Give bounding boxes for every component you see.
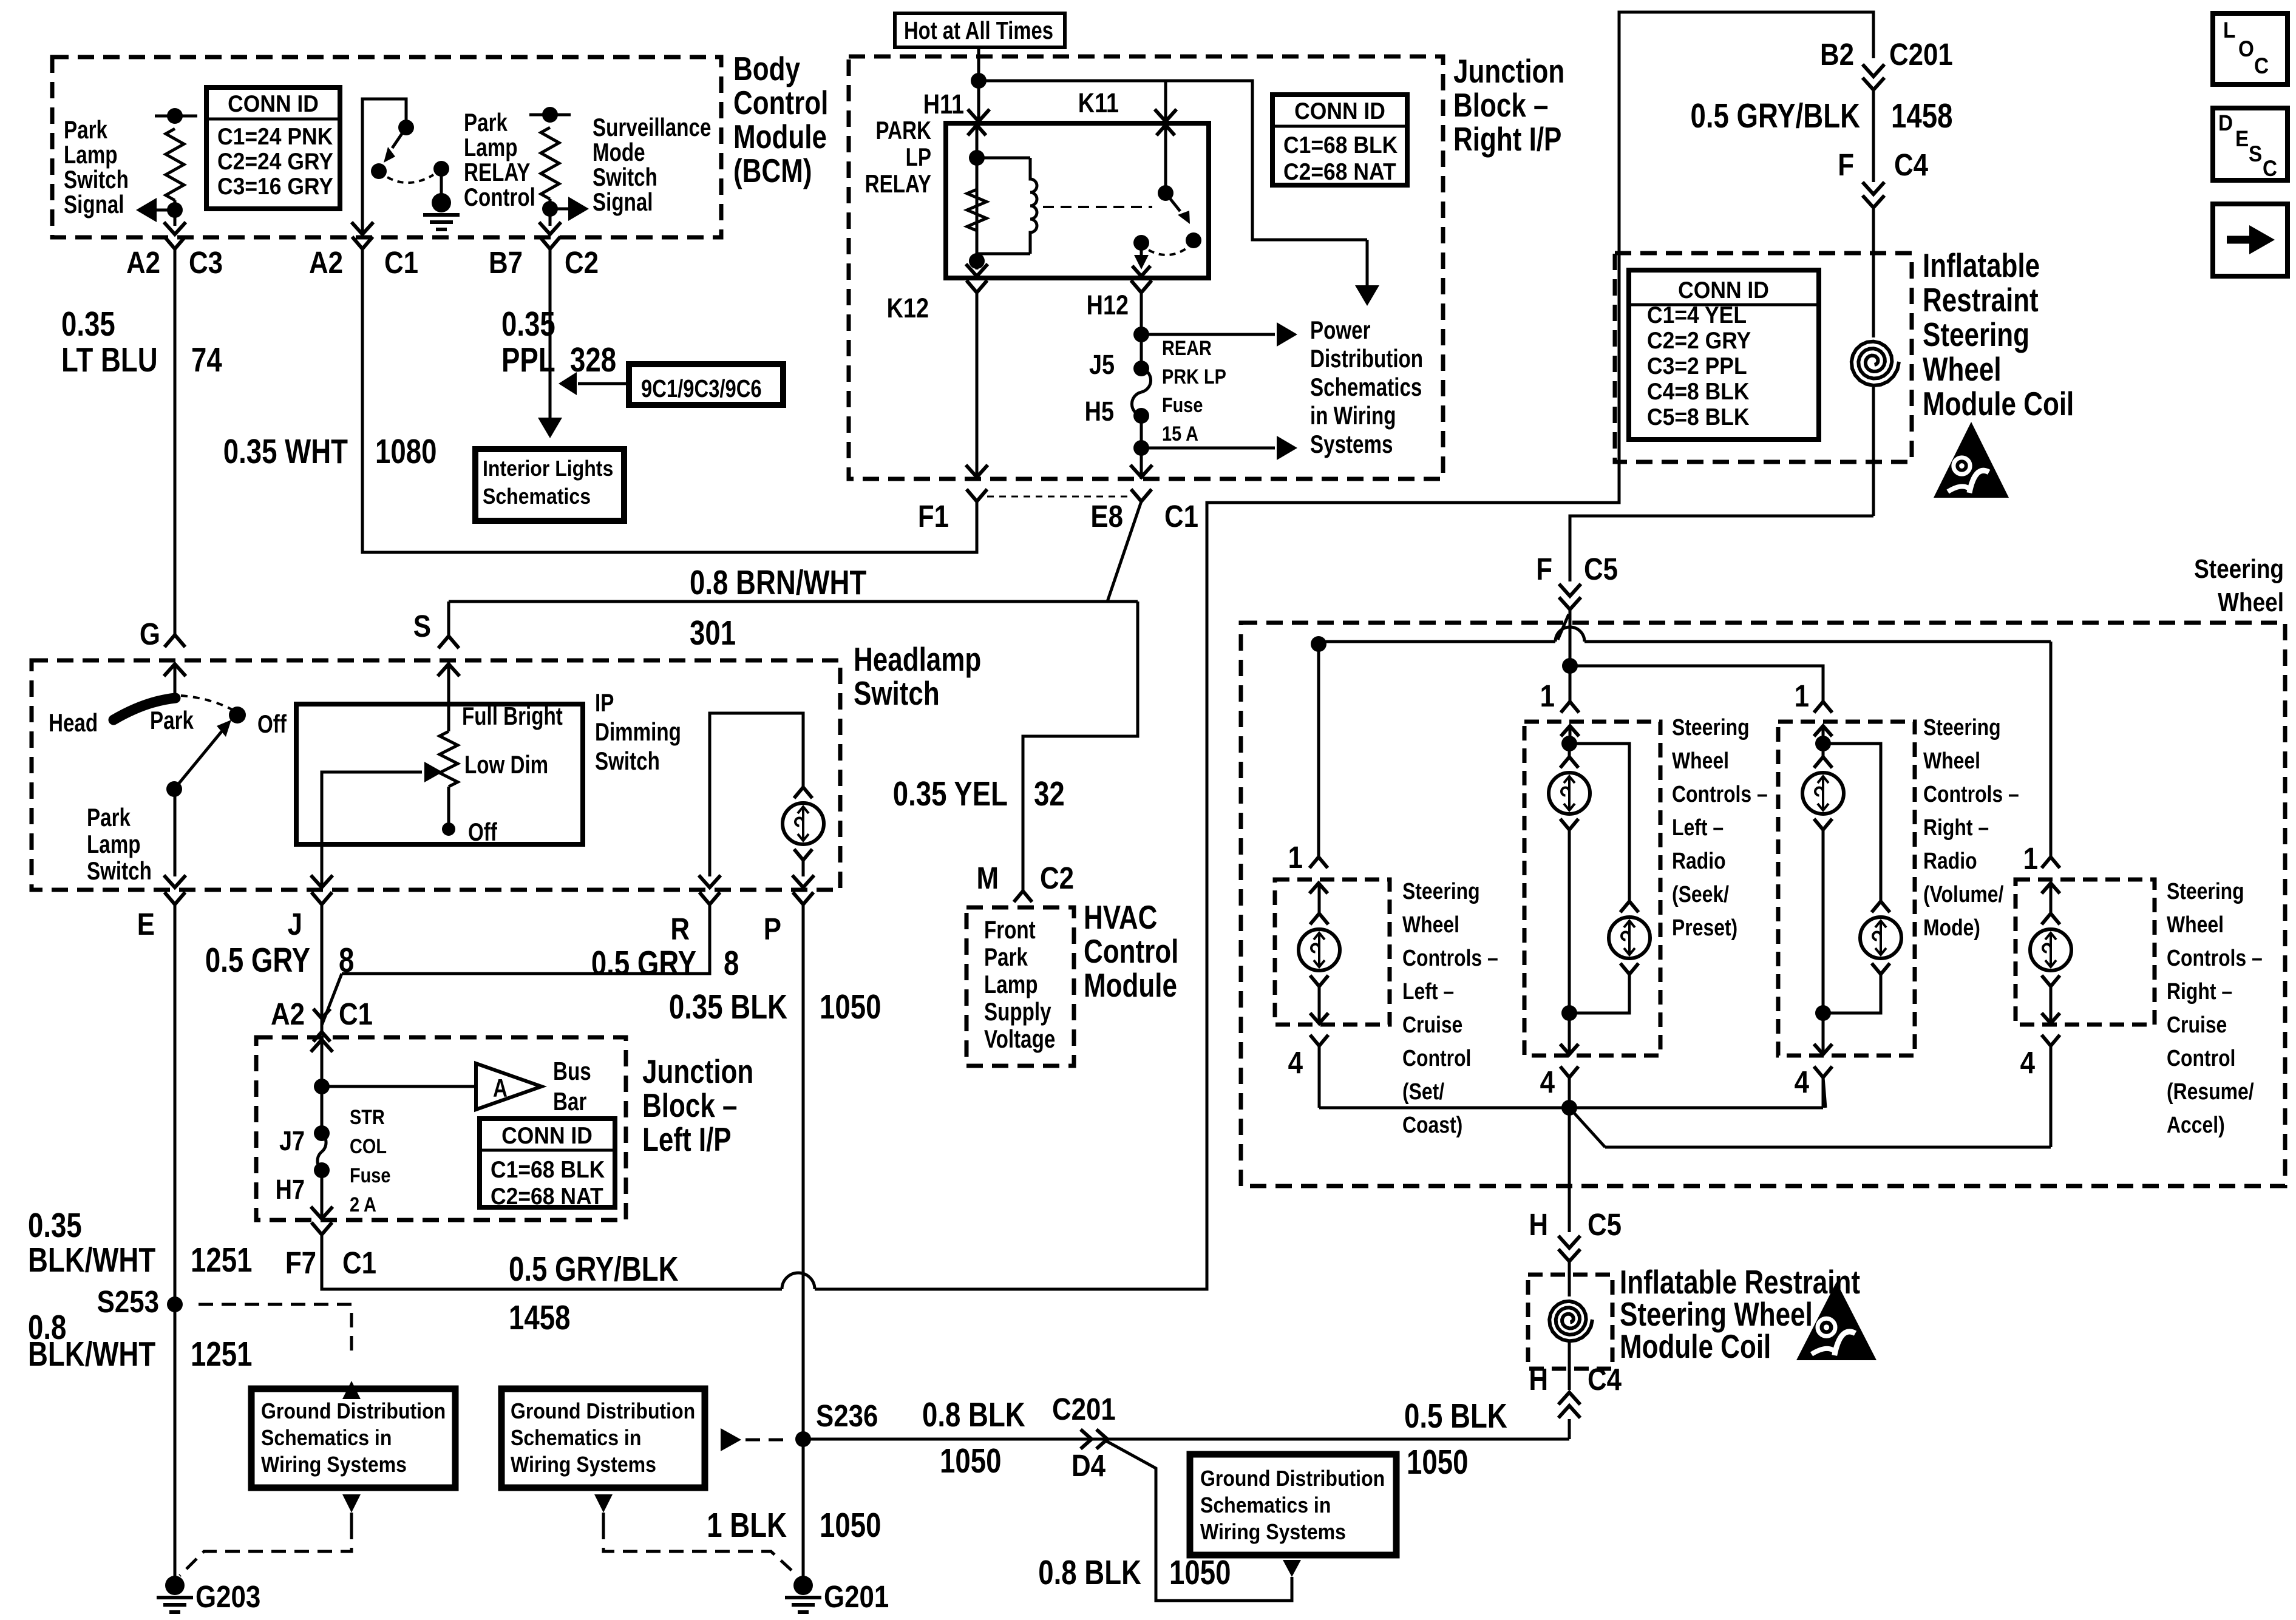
bus 1097 to right radio bbox=[1570, 666, 1823, 702]
connector fork K12 bbox=[966, 280, 987, 479]
svg-text:C1=68 BLK: C1=68 BLK bbox=[1283, 131, 1398, 158]
svg-text:PRK LP: PRK LP bbox=[1162, 365, 1226, 388]
label Headlamp Switch bbox=[854, 640, 981, 712]
connector H C5 inline bbox=[1558, 1236, 1580, 1261]
label Park Lamp RELAY Control bbox=[464, 109, 535, 212]
pin 1 left radio bbox=[1540, 679, 1579, 736]
connector C5 inline bbox=[1559, 584, 1581, 609]
connector fork B7/C2 bbox=[540, 237, 560, 262]
switch box: SWC Left Radio bbox=[1524, 722, 1660, 1056]
svg-text:C4: C4 bbox=[1588, 1363, 1622, 1397]
wire J to junction block bbox=[321, 1008, 324, 1035]
wire to H C5 bbox=[1568, 1108, 1571, 1232]
svg-text:1050: 1050 bbox=[820, 987, 881, 1026]
relay switch bbox=[1133, 123, 1201, 255]
pin 1 right radio bbox=[1795, 679, 1832, 736]
connector fork S bbox=[438, 636, 459, 648]
wire fuse to E8 bbox=[1133, 416, 1149, 479]
svg-text:Low Dim: Low Dim bbox=[464, 751, 548, 779]
svg-text:F: F bbox=[1536, 552, 1552, 587]
pin 1 left cruise bbox=[1288, 841, 1328, 893]
svg-text:9C1/9C3/9C6: 9C1/9C3/9C6 bbox=[641, 374, 762, 402]
loc box bbox=[2213, 13, 2288, 84]
svg-text:C2=68 NAT: C2=68 NAT bbox=[491, 1182, 603, 1209]
svg-text:F: F bbox=[1838, 148, 1854, 183]
label Head bbox=[49, 709, 98, 737]
svg-text:C2=24 GRY: C2=24 GRY bbox=[217, 147, 333, 174]
pin label H5 bbox=[1085, 396, 1114, 427]
pin label B2 C201 bbox=[1820, 38, 1953, 72]
label Park Lamp Switch bbox=[87, 804, 152, 886]
pin label K11 bbox=[1078, 87, 1119, 118]
svg-text:Fuse: Fuse bbox=[350, 1164, 390, 1187]
wire 0.35 WHT 1080 label bbox=[223, 432, 437, 470]
svg-text:M: M bbox=[976, 861, 999, 896]
connector fork F1 bbox=[966, 489, 987, 515]
svg-text:C201: C201 bbox=[1889, 38, 1953, 72]
fuse STR COL 2A bbox=[314, 1125, 330, 1178]
svg-text:C3=2 PPL: C3=2 PPL bbox=[1647, 352, 1747, 379]
wire K11 branch right to power dist bbox=[1166, 81, 1367, 240]
svg-text:Park: Park bbox=[87, 804, 131, 832]
label R bbox=[670, 912, 690, 947]
wire 0.35 PPL 328 label bbox=[501, 304, 616, 379]
connector arrow H11 into relay bbox=[968, 109, 990, 121]
svg-text:Park: Park bbox=[64, 116, 108, 144]
dimmer wiper arrow bbox=[322, 762, 443, 887]
label 0.8 BLK bottom bbox=[1038, 1553, 1231, 1591]
svg-text:(Volume/: (Volume/ bbox=[1923, 881, 2004, 907]
svg-text:4: 4 bbox=[1795, 1065, 1810, 1100]
svg-text:1050: 1050 bbox=[1407, 1442, 1468, 1481]
svg-text:Control: Control bbox=[2167, 1045, 2235, 1071]
svg-text:Switch: Switch bbox=[854, 674, 940, 712]
svg-text:Module: Module bbox=[1084, 966, 1177, 1004]
svg-text:Headlamp: Headlamp bbox=[854, 640, 981, 678]
label 301 bbox=[690, 613, 736, 652]
svg-text:Switch: Switch bbox=[595, 747, 660, 776]
svg-text:(Resume/: (Resume/ bbox=[2167, 1079, 2254, 1104]
resistor R-parklamp in BCM bbox=[155, 108, 197, 210]
svg-text:Hot at All Times: Hot at All Times bbox=[904, 16, 1053, 44]
pin label E8 bbox=[1090, 500, 1123, 534]
ref arrow below box3 bbox=[1283, 1560, 1301, 1577]
svg-text:CONN ID: CONN ID bbox=[501, 1122, 593, 1148]
connector H C4 inline bbox=[1558, 1392, 1580, 1439]
svg-text:Controls –: Controls – bbox=[1923, 781, 2019, 807]
pin label C1 right of E8 bbox=[1164, 500, 1198, 534]
svg-text:Interior Lights: Interior Lights bbox=[483, 456, 613, 481]
svg-text:Wheel: Wheel bbox=[2218, 587, 2284, 617]
svg-text:4: 4 bbox=[2020, 1046, 2036, 1080]
label SWC Left Radio bbox=[1672, 714, 1768, 940]
svg-text:Voltage: Voltage bbox=[984, 1025, 1055, 1054]
pin 4 right radio bbox=[1795, 1065, 1832, 1108]
off contact dot bbox=[229, 707, 246, 724]
label G bbox=[140, 617, 160, 652]
svg-text:Lamp: Lamp bbox=[64, 141, 117, 169]
svg-text:0.8 BRN/WHT: 0.8 BRN/WHT bbox=[690, 563, 866, 602]
label 1458 mid bbox=[509, 1298, 570, 1337]
wire 0.8 BRN/WHT 301 horizontal bbox=[449, 602, 1138, 891]
label J bbox=[288, 907, 302, 942]
exit SWC right radio bbox=[1814, 1013, 1832, 1054]
svg-text:Ground Distribution: Ground Distribution bbox=[511, 1399, 695, 1423]
svg-text:B7: B7 bbox=[489, 246, 523, 280]
svg-text:Inflatable: Inflatable bbox=[1923, 246, 2040, 284]
svg-text:Supply: Supply bbox=[984, 998, 1051, 1026]
park head switch dashed arc bbox=[181, 696, 236, 711]
svg-text:1050: 1050 bbox=[820, 1505, 881, 1544]
resistor R-surveillance in BCM bbox=[529, 107, 571, 209]
svg-text:Power: Power bbox=[1310, 316, 1371, 345]
conn id table Junction Right bbox=[1272, 95, 1407, 185]
label 0.8 BLK/WHT 1251 bbox=[28, 1307, 252, 1373]
connector C201 D4 inline bbox=[1081, 1429, 1107, 1449]
connector C201 inline bbox=[1863, 64, 1884, 90]
label Full Bright bbox=[462, 702, 563, 731]
connector fork H12 bbox=[1131, 280, 1152, 334]
ground G201 bbox=[785, 1576, 889, 1615]
svg-text:328: 328 bbox=[570, 340, 616, 379]
wire S236 to H C4 bbox=[803, 1438, 1569, 1441]
svg-text:Front: Front bbox=[984, 916, 1036, 944]
wire park pivot to E bbox=[164, 789, 186, 887]
pin label J7 bbox=[279, 1125, 305, 1156]
svg-text:A: A bbox=[493, 1074, 508, 1103]
svg-text:E: E bbox=[2235, 126, 2249, 151]
svg-text:0.5 GRY: 0.5 GRY bbox=[205, 940, 310, 979]
svg-text:D: D bbox=[2218, 110, 2233, 135]
svg-text:Park: Park bbox=[984, 943, 1028, 972]
wire W1 segment BCM to headlamp switch bbox=[174, 262, 177, 635]
pin 4 left cruise bbox=[1288, 1035, 1328, 1108]
label REAR PRK LP Fuse 15 A bbox=[1162, 336, 1226, 446]
svg-text:Lamp: Lamp bbox=[984, 971, 1038, 999]
label Body Control Module (BCM) bbox=[733, 50, 828, 189]
bulb SWC left radio main bbox=[1549, 726, 1590, 1013]
wire G into switch bbox=[174, 664, 177, 703]
svg-text:15 A: 15 A bbox=[1162, 422, 1198, 446]
svg-text:S253: S253 bbox=[97, 1285, 159, 1320]
svg-text:in Wiring: in Wiring bbox=[1310, 402, 1396, 430]
svg-text:0.35 WHT: 0.35 WHT bbox=[223, 432, 348, 470]
svg-text:Cruise: Cruise bbox=[2167, 1012, 2227, 1037]
svg-text:L: L bbox=[2223, 18, 2235, 42]
pin label H C4 bbox=[1529, 1363, 1622, 1397]
svg-text:Dimming: Dimming bbox=[595, 718, 681, 747]
svg-text:Steering: Steering bbox=[1402, 878, 1480, 904]
junction block F1 exit arrow bbox=[966, 465, 988, 477]
bulb SWC right radio main bbox=[1802, 726, 1844, 1013]
label 0.35 BLK 1050 bbox=[669, 987, 881, 1026]
svg-text:Wheel: Wheel bbox=[2167, 912, 2224, 937]
svg-text:Bar: Bar bbox=[553, 1088, 587, 1116]
svg-text:Right –: Right – bbox=[1923, 815, 1989, 840]
exit SWC left radio bbox=[1560, 1013, 1578, 1054]
relay control switch in BCM bbox=[362, 99, 449, 236]
wire W2 BCM C1 to F1 bbox=[362, 262, 977, 552]
conn id table Junction Left bbox=[480, 1119, 615, 1209]
svg-text:4: 4 bbox=[1288, 1046, 1303, 1080]
thin dashed connector line F1-E8 bbox=[987, 496, 1130, 498]
wire F7 exit bbox=[311, 1170, 333, 1235]
junction block E8 exit arrow bbox=[1130, 465, 1152, 477]
svg-text:1: 1 bbox=[1795, 679, 1809, 714]
svg-text:0.35 BLK: 0.35 BLK bbox=[669, 987, 787, 1026]
svg-text:C4=8 BLK: C4=8 BLK bbox=[1647, 378, 1750, 404]
label C201 D4 bbox=[1052, 1392, 1116, 1483]
svg-text:Controls –: Controls – bbox=[2167, 945, 2263, 971]
svg-text:J5: J5 bbox=[1089, 349, 1115, 380]
next arrow box bbox=[2213, 204, 2288, 276]
switch box: SWC Left Cruise bbox=[1275, 879, 1390, 1025]
svg-text:Left –: Left – bbox=[1672, 815, 1724, 840]
svg-text:0.35: 0.35 bbox=[501, 304, 555, 343]
svg-text:PPL: PPL bbox=[501, 340, 555, 379]
svg-text:Switch: Switch bbox=[64, 166, 129, 194]
module box: Inflatable Restraint coil bottom bbox=[1528, 1275, 1612, 1369]
svg-text:74: 74 bbox=[191, 340, 222, 379]
switch box: SWC Right Radio bbox=[1778, 722, 1915, 1056]
svg-text:H11: H11 bbox=[923, 89, 964, 120]
dashed ref from S253 bbox=[199, 1304, 361, 1399]
pin label A2 C1 junction left bbox=[271, 997, 373, 1032]
svg-text:Schematics in: Schematics in bbox=[1200, 1493, 1331, 1517]
svg-text:LP: LP bbox=[906, 143, 931, 172]
svg-text:Body: Body bbox=[733, 50, 800, 87]
svg-text:Steering: Steering bbox=[1923, 316, 2029, 353]
wire E8 diagonal to BRN/WHT bbox=[1107, 501, 1141, 602]
svg-text:1458: 1458 bbox=[509, 1298, 570, 1337]
svg-text:C1: C1 bbox=[342, 1246, 376, 1281]
label 1050 S236 bbox=[940, 1441, 1001, 1480]
svg-text:Left I/P: Left I/P bbox=[642, 1120, 732, 1158]
svg-text:Lamp: Lamp bbox=[464, 134, 517, 162]
svg-text:Wheel: Wheel bbox=[1402, 912, 1459, 937]
label Off bbox=[257, 710, 287, 739]
svg-text:Controls –: Controls – bbox=[1402, 945, 1498, 971]
label SWC Left Cruise bbox=[1402, 878, 1498, 1137]
svg-text:G201: G201 bbox=[824, 1580, 889, 1615]
desc box bbox=[2213, 108, 2288, 181]
svg-text:A2: A2 bbox=[309, 246, 343, 280]
wire P down to G201 bbox=[795, 904, 811, 1585]
svg-text:Steering: Steering bbox=[2167, 878, 2244, 904]
clockspring coil top bbox=[1852, 342, 1899, 516]
svg-text:C2=2 GRY: C2=2 GRY bbox=[1647, 327, 1751, 353]
switch box: SWC Right Cruise bbox=[2016, 879, 2155, 1025]
svg-text:C: C bbox=[2263, 156, 2277, 181]
connector fork A2/C1 bbox=[352, 237, 373, 262]
switch blade with arrow bbox=[166, 720, 231, 797]
label IP Dimming Switch bbox=[595, 689, 681, 776]
node: park lamp switch signal arrow bbox=[136, 198, 183, 226]
svg-text:IP: IP bbox=[595, 689, 614, 717]
ref arrow to S236 bbox=[721, 1428, 790, 1451]
svg-text:1251: 1251 bbox=[191, 1240, 252, 1279]
conn id table BCM bbox=[206, 87, 340, 209]
dashed ref to G203 bbox=[180, 1525, 352, 1576]
label S bbox=[413, 609, 431, 644]
svg-text:1251: 1251 bbox=[191, 1334, 252, 1373]
svg-text:F1: F1 bbox=[918, 500, 949, 534]
wire hot feed to relay bbox=[971, 47, 987, 119]
svg-text:J7: J7 bbox=[279, 1125, 305, 1156]
svg-text:Steering: Steering bbox=[2194, 554, 2284, 584]
svg-text:Module: Module bbox=[733, 118, 827, 155]
pin label H12 bbox=[1087, 290, 1129, 320]
wire C2 to interior lights bbox=[538, 262, 562, 438]
svg-text:Radio: Radio bbox=[1672, 848, 1726, 873]
arrow to power distribution vertical bbox=[1355, 240, 1379, 306]
svg-text:S236: S236 bbox=[816, 1399, 878, 1434]
svg-text:Surveillance: Surveillance bbox=[593, 114, 711, 142]
airbag warning triangle bottom bbox=[1796, 1282, 1877, 1360]
svg-text:(Set/: (Set/ bbox=[1402, 1079, 1444, 1104]
svg-text:Head: Head bbox=[49, 709, 98, 737]
svg-text:Wiring Systems: Wiring Systems bbox=[1200, 1520, 1346, 1544]
svg-text:Wheel: Wheel bbox=[1923, 350, 2002, 388]
module box: Junction Block Left I/P bbox=[256, 1037, 626, 1220]
wire M C2 connector bbox=[1014, 891, 1032, 902]
svg-text:G: G bbox=[140, 617, 160, 652]
svg-text:C1=68 BLK: C1=68 BLK bbox=[491, 1156, 605, 1182]
wire R to A2/C1 bbox=[322, 904, 710, 1025]
label 0.5 GRY 8 left bbox=[205, 940, 355, 979]
relay resistor bbox=[967, 189, 987, 231]
svg-text:C5=8 BLK: C5=8 BLK bbox=[1647, 403, 1750, 430]
svg-text:8: 8 bbox=[724, 943, 739, 982]
svg-text:C5: C5 bbox=[1588, 1208, 1622, 1242]
wire A2/C3 exit arrow bbox=[164, 222, 186, 234]
wire into left junction block bbox=[311, 1037, 333, 1133]
svg-text:Wiring Systems: Wiring Systems bbox=[511, 1452, 656, 1477]
svg-text:C2=68 NAT: C2=68 NAT bbox=[1283, 158, 1396, 185]
svg-text:C4: C4 bbox=[1894, 148, 1929, 183]
module box: Steering Wheel bbox=[1241, 623, 2285, 1186]
svg-text:Off: Off bbox=[468, 818, 497, 847]
svg-text:REAR: REAR bbox=[1162, 336, 1212, 360]
svg-text:K12: K12 bbox=[887, 293, 929, 324]
svg-text:Control: Control bbox=[1402, 1045, 1471, 1071]
svg-text:Park: Park bbox=[464, 109, 508, 137]
pin 4 right cruise bbox=[2020, 1035, 2060, 1147]
connector fork A2/C3 bbox=[165, 237, 185, 262]
ground distribution box 1 bbox=[251, 1389, 455, 1488]
svg-text:C1: C1 bbox=[1164, 500, 1198, 534]
pin label H7 bbox=[276, 1174, 305, 1205]
svg-text:4: 4 bbox=[1540, 1065, 1555, 1100]
label 0.5 GRY/BLK mid bbox=[509, 1249, 679, 1288]
svg-text:C5: C5 bbox=[1584, 552, 1618, 587]
arrow branch to power dist 2 bbox=[1141, 436, 1297, 460]
svg-text:Control: Control bbox=[1084, 932, 1178, 970]
svg-text:2 A: 2 A bbox=[350, 1193, 376, 1216]
svg-text:Controls –: Controls – bbox=[1672, 781, 1768, 807]
bulb SWC left radio branch bbox=[1561, 744, 1650, 1021]
conn id table coil bbox=[1629, 270, 1819, 439]
svg-text:Cruise: Cruise bbox=[1402, 1012, 1462, 1037]
svg-text:LT BLU: LT BLU bbox=[61, 340, 158, 379]
svg-text:0.5 GRY: 0.5 GRY bbox=[591, 943, 696, 982]
svg-text:Preset): Preset) bbox=[1672, 915, 1737, 940]
bulb SWC right cruise bbox=[2030, 883, 2071, 1023]
pin label K12 bbox=[887, 293, 929, 324]
svg-text:C1: C1 bbox=[384, 246, 418, 280]
pin label J5 bbox=[1089, 349, 1115, 380]
svg-text:Schematics: Schematics bbox=[483, 484, 591, 509]
label 0.35 BLK/WHT 1251 bbox=[28, 1205, 252, 1279]
pin label A2 / C1 bbox=[309, 246, 418, 280]
svg-text:1: 1 bbox=[1540, 679, 1555, 714]
label 0.8 BRN/WHT bbox=[690, 563, 866, 602]
relay actuation dashed line bbox=[1043, 206, 1152, 208]
relay box PARK LP RELAY bbox=[946, 123, 1209, 278]
svg-text:0.35 YEL: 0.35 YEL bbox=[893, 774, 1008, 813]
pin label F C4 bbox=[1838, 148, 1928, 183]
svg-text:Schematics: Schematics bbox=[1310, 373, 1422, 402]
wire P exit arrow bbox=[792, 875, 814, 904]
svg-text:Switch: Switch bbox=[593, 163, 657, 192]
svg-text:Ground Distribution: Ground Distribution bbox=[1200, 1466, 1385, 1491]
wire H11-K11 bus bbox=[979, 80, 1166, 83]
svg-text:Wheel: Wheel bbox=[1923, 748, 1980, 773]
interior lights schematics box bbox=[475, 449, 624, 521]
svg-text:Steering: Steering bbox=[1923, 714, 2001, 740]
svg-text:O: O bbox=[2238, 36, 2254, 61]
label Steering Wheel bbox=[2194, 554, 2284, 617]
dashed ref to G201 bbox=[603, 1525, 793, 1572]
ground distribution box 2 bbox=[501, 1389, 705, 1488]
relay coil wire left bbox=[968, 123, 986, 269]
svg-text:H: H bbox=[1529, 1363, 1548, 1397]
pin label A2 / C3 bbox=[126, 246, 223, 280]
arrow branch to power dist 1 bbox=[1141, 322, 1297, 347]
bus bar A bbox=[322, 1057, 591, 1116]
wire 1458 run bbox=[322, 12, 1873, 1289]
label PARK LP RELAY bbox=[865, 117, 931, 198]
svg-text:J: J bbox=[288, 907, 302, 942]
svg-text:Steering: Steering bbox=[1672, 714, 1750, 740]
svg-text:Control: Control bbox=[733, 84, 828, 121]
svg-text:301: 301 bbox=[690, 613, 736, 652]
wire D4 drop to ground box3 bbox=[1106, 1441, 1292, 1601]
svg-text:Wiring Systems: Wiring Systems bbox=[261, 1452, 407, 1477]
splice S236 label bbox=[816, 1399, 878, 1434]
svg-text:Module Coil: Module Coil bbox=[1620, 1327, 1771, 1365]
svg-text:COL: COL bbox=[350, 1134, 387, 1158]
R-P bus in headlamp switch bbox=[710, 713, 803, 876]
hot at all times box bbox=[895, 13, 1065, 47]
svg-text:0.35: 0.35 bbox=[61, 304, 115, 343]
svg-text:B2: B2 bbox=[1820, 38, 1854, 72]
park head switch thick arc bbox=[114, 698, 175, 720]
bus 1057 with hop bbox=[1319, 627, 2051, 642]
svg-text:S: S bbox=[2249, 141, 2262, 166]
svg-text:F7: F7 bbox=[285, 1246, 316, 1281]
module box: Inflatable Restraint SWM Coil top bbox=[1615, 253, 1912, 462]
bus pin4 right bbox=[1569, 1108, 2051, 1147]
svg-text:0.5 GRY/BLK: 0.5 GRY/BLK bbox=[1690, 96, 1860, 135]
label P bbox=[764, 912, 781, 947]
svg-text:C2: C2 bbox=[1040, 861, 1074, 896]
module box: Headlamp Switch bbox=[32, 660, 840, 890]
wire F C5 into steering wheel bbox=[1569, 610, 1572, 666]
svg-text:Mode): Mode) bbox=[1923, 915, 1980, 940]
node: surveillance signal arrow bbox=[542, 197, 589, 226]
svg-text:C201: C201 bbox=[1052, 1392, 1116, 1427]
